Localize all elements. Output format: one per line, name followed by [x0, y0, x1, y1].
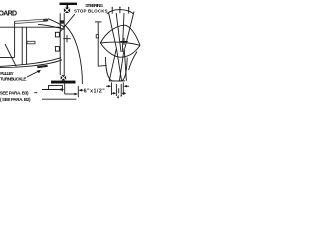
pulley post pair — [21, 27, 23, 65]
hull bottom arc — [100, 43, 140, 57]
blade right position left edge — [119, 48, 124, 81]
cable lower run — [0, 60, 62, 68]
hull sheer arc upper — [100, 25, 140, 45]
keel black bar — [51, 81, 76, 84]
stop tick 3 — [128, 7, 130, 13]
height line vertical — [97, 22, 99, 66]
swing arc right upper — [129, 52, 137, 71]
tiller shaft line 4 — [125, 12, 134, 49]
staple bracket — [49, 85, 63, 91]
dim tick right — [77, 86, 79, 97]
stop arc — [107, 10, 134, 14]
svg-text:PULLEY: PULLEY — [0, 71, 14, 76]
height leader horizontal — [98, 64, 106, 67]
dim A line — [42, 89, 63, 91]
svg-text:6"x1/2": 6"x1/2" — [84, 88, 106, 94]
rudder centerline — [118, 88, 120, 93]
pulley leader — [5, 44, 16, 66]
masthead stem — [67, 5, 69, 8]
turnbuckle body — [37, 66, 47, 67]
dim text arrow — [79, 89, 83, 92]
console vertical — [14, 22, 16, 58]
masthead black bar — [60, 3, 78, 5]
svg-text:STEERING: STEERING — [85, 3, 103, 8]
svg-text:TURNBUCKLE: TURNBUCKLE — [0, 77, 27, 82]
blade left position right edge — [116, 48, 121, 81]
blade base left — [109, 80, 115, 82]
blade base right — [119, 80, 125, 82]
height line cap — [95, 21, 102, 23]
tiller shaft line 2 — [116, 13, 121, 52]
rudder dim2 arrows — [112, 92, 115, 94]
post clamp dark block — [60, 20, 65, 23]
masthead box with X — [64, 8, 70, 13]
keel box with X — [61, 75, 66, 80]
svg-text:(SEE PARA. B3): (SEE PARA. B3) — [0, 90, 29, 95]
stop tick 2 — [119, 7, 121, 13]
tiller shaft line 1 — [109, 13, 117, 48]
dim stem — [64, 84, 66, 94]
steering drum / handle capsule — [14, 19, 48, 24]
stern profile curve — [65, 25, 82, 84]
dash after B3 — [34, 92, 37, 94]
rudder dim tick left — [111, 82, 113, 95]
stop blocks leader — [60, 14, 75, 32]
cable upper run — [0, 58, 61, 67]
dim B arrowhead — [74, 93, 78, 96]
console bottom line — [0, 57, 15, 59]
lower long line — [42, 98, 77, 100]
rudder inner tick right — [120, 84, 122, 96]
post guide block upper — [55, 32, 59, 37]
stern post left line — [59, 13, 61, 75]
cable from drum lower — [38, 24, 65, 29]
deck line — [0, 26, 61, 28]
tiller shaft line 3 — [122, 13, 124, 52]
svg-text:OARD: OARD — [0, 10, 17, 17]
dim B line — [65, 93, 77, 95]
pivot cross right — [120, 38, 128, 45]
rudder dim arrows — [106, 85, 110, 87]
pivot cross left — [63, 35, 71, 42]
rudder dim tick right — [122, 82, 124, 95]
stop tick 1 — [111, 7, 113, 13]
hull middle arc — [100, 42, 140, 45]
rudder inner tick left — [115, 84, 117, 96]
cable from drum upper — [48, 19, 65, 28]
blade right position right edge — [124, 48, 126, 81]
post guide block lower — [55, 47, 59, 52]
svg-text:( SEE PARA. B2): ( SEE PARA. B2) — [0, 97, 31, 102]
svg-text:STOP BLOCKS: STOP BLOCKS — [74, 8, 108, 13]
svg-text:4": 4" — [117, 95, 123, 100]
dim A arrowhead — [61, 88, 65, 91]
stern post right line — [63, 13, 65, 75]
height line block — [96, 35, 98, 38]
hull section U curve — [105, 57, 127, 81]
blade left position left edge — [109, 48, 116, 81]
turnbuckle leader — [27, 71, 40, 77]
turnbuckle leader arrowhead — [37, 70, 41, 73]
stop block tab — [27, 41, 35, 44]
